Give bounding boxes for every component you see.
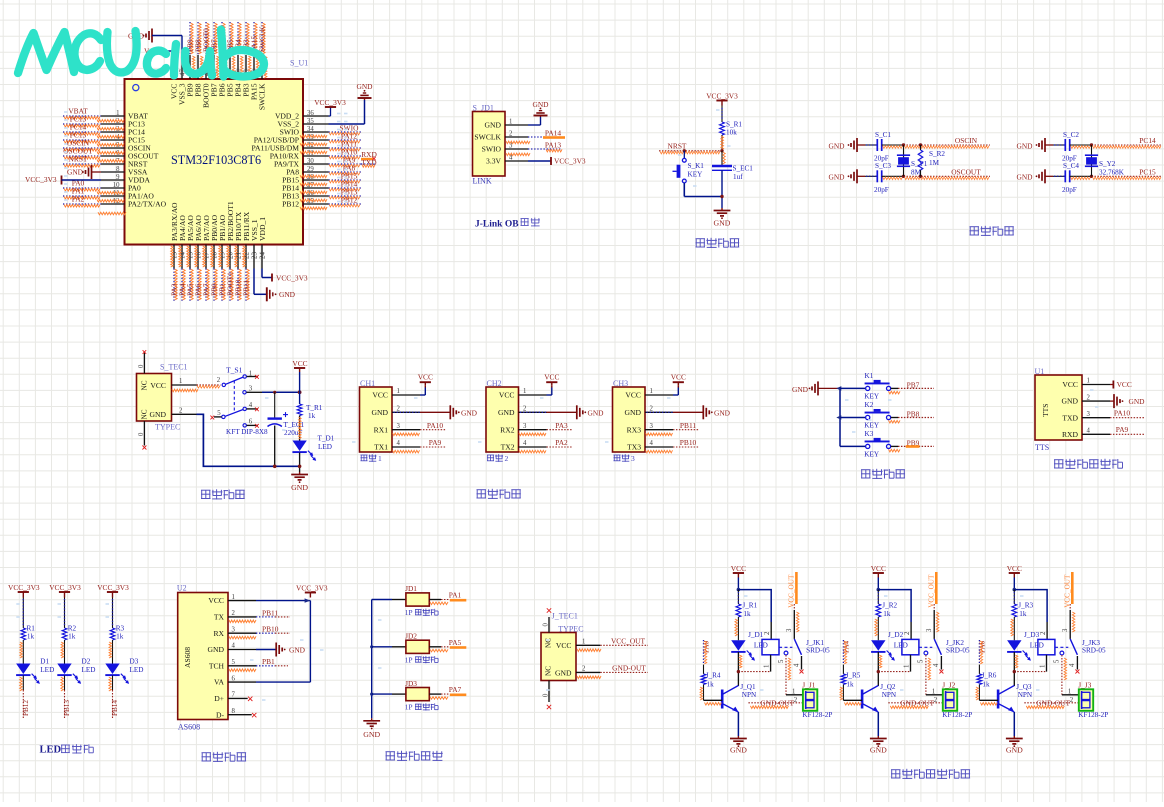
relay J_JK2 SRD-05 coil (902, 639, 919, 654)
svg-text:LED: LED (894, 642, 908, 650)
key S_K1 (683, 151, 685, 159)
wire / net label PB6 (221, 22, 223, 55)
svg-text:K3: K3 (865, 430, 874, 438)
svg-text:2: 2 (523, 406, 527, 413)
svg-text:GND: GND (532, 100, 549, 109)
pin 3 TXD (1082, 417, 1110, 419)
svg-text:18: 18 (211, 252, 219, 260)
wire / net label NRST (63, 163, 101, 165)
power VCC_3V3 (J-Link 3.3V) (528, 160, 551, 162)
pin 15 PA5/AO (189, 245, 191, 269)
svg-text:LINK: LINK (473, 177, 492, 186)
svg-text:J_D1: J_D1 (748, 631, 764, 639)
svg-text:J-Link OB: J-Link OB (475, 219, 519, 229)
pin 39 PB3 (245, 55, 247, 79)
svg-text:6: 6 (249, 418, 253, 425)
wire (22, 640, 24, 664)
capacitor S_C4 20pF (1064, 170, 1066, 182)
svg-text:20pF: 20pF (874, 186, 889, 194)
svg-text:S_K1: S_K1 (688, 162, 705, 170)
svg-text:1: 1 (397, 388, 400, 395)
pin 9 VDDA (101, 179, 125, 181)
svg-text:24: 24 (259, 252, 267, 260)
pin right / net label PA1 (429, 599, 441, 601)
pin right / net label PA5 (429, 646, 441, 648)
svg-text:1k: 1k (27, 633, 35, 641)
pin 26 PB13 (303, 195, 329, 197)
pin 3 RX3 (645, 429, 673, 431)
svg-text:VCC_OUT: VCC_OUT (928, 574, 936, 608)
svg-text:TX1: TX1 (374, 443, 388, 452)
svg-text:GND: GND (714, 219, 731, 228)
svg-text:S_R2: S_R2 (929, 150, 945, 158)
net label PA9 (1110, 433, 1145, 435)
svg-text:TX2: TX2 (501, 443, 515, 452)
pin 0 top (143, 353, 145, 374)
svg-text:VCC_3V3: VCC_3V3 (706, 91, 738, 100)
pin 3 RX (228, 632, 256, 634)
wire (865, 175, 877, 177)
relay J_JK3 SRD-05 coil (1038, 639, 1055, 654)
svg-text:1uf: 1uf (733, 173, 743, 181)
resistor S_R1 10k (720, 122, 725, 135)
wire emitter to ground (1013, 712, 1015, 736)
wire (882, 144, 904, 146)
svg-text:GND: GND (1062, 397, 1079, 406)
wire / net label PA0 (63, 187, 101, 189)
net label PB11 (673, 429, 699, 431)
pale marks (716, 109, 720, 111)
pin 1 VCC (172, 384, 197, 386)
contact lever (1070, 639, 1077, 655)
pin 48 VCC (173, 55, 175, 79)
svg-text:VCC_3V3: VCC_3V3 (276, 273, 308, 282)
pin 0 bottom (143, 421, 145, 446)
svg-text:1: 1 (509, 119, 512, 126)
wire / net label PB4 (237, 22, 239, 55)
pin 4 TX1 (392, 446, 420, 448)
key K1 (836, 386, 841, 391)
wire / net label PC15 (63, 139, 101, 141)
svg-text:GND: GND (1017, 141, 1034, 150)
wire / net label PB10 (237, 269, 239, 302)
svg-text:2: 2 (934, 697, 938, 704)
wire coil to collector node (1014, 671, 1046, 673)
power VCC (serial) (420, 394, 425, 396)
svg-text:SRD-05: SRD-05 (806, 647, 830, 655)
LED D1 (16, 664, 30, 675)
svg-text:1P: 1P (405, 703, 413, 712)
pin 2 GND (645, 411, 673, 413)
svg-text:1k: 1k (743, 610, 751, 618)
stub pins with no connect (247, 376, 258, 378)
svg-text:20pF: 20pF (1062, 186, 1077, 194)
svg-text:VCC: VCC (1062, 380, 1078, 389)
svg-text:3: 3 (397, 423, 401, 430)
wire (721, 106, 723, 123)
svg-text:RX1: RX1 (374, 425, 389, 434)
svg-text:AS608: AS608 (178, 723, 200, 732)
svg-text:PC15: PC15 (1139, 168, 1156, 177)
svg-text:SWCLK: SWCLK (474, 133, 501, 142)
net label PB1 (256, 665, 275, 667)
svg-text:4: 4 (397, 440, 401, 447)
wire key to gnd rail (683, 183, 685, 197)
coil pin1 (1046, 655, 1048, 672)
svg-text:LED: LED (1030, 642, 1044, 650)
caption 指纹模块 (202, 752, 212, 754)
wire coil to collector node (878, 671, 910, 673)
svg-text:1: 1 (582, 639, 585, 646)
svg-text:GND: GND (289, 645, 306, 654)
svg-text:R3: R3 (116, 625, 125, 633)
svg-text:1k: 1k (707, 681, 715, 689)
svg-text:NPN: NPN (742, 691, 757, 699)
pin 2 GND (172, 413, 197, 415)
svg-text:D3: D3 (130, 658, 139, 666)
wire / net label NRST (659, 150, 722, 152)
ground (reset) (721, 208, 723, 211)
svg-text:PA10: PA10 (1114, 409, 1130, 418)
wire (1070, 144, 1092, 146)
svg-text:VCC_3V3: VCC_3V3 (49, 583, 81, 592)
svg-text:NC: NC (141, 409, 149, 419)
LED D2 (57, 664, 71, 675)
dashed link (779, 646, 792, 648)
caption 按键电路 (861, 469, 871, 471)
svg-text:RXD: RXD (1062, 430, 1079, 439)
svg-text:GND: GND (498, 408, 515, 417)
caption 电磁锁反馈 (386, 751, 396, 753)
wire (877, 652, 879, 686)
pin 2 GND (519, 411, 547, 413)
pin 1 VCC (392, 394, 420, 396)
svg-text:4: 4 (232, 643, 236, 650)
svg-text:PA7: PA7 (449, 685, 462, 694)
wire (64, 598, 66, 629)
wire gnd rail (197, 414, 300, 466)
svg-text:GND: GND (1006, 746, 1023, 755)
svg-text:3: 3 (1087, 411, 1091, 418)
pin 1 VCC (645, 394, 673, 396)
extra zigzag bottom left pin (98, 212, 126, 215)
pin 24 VDD_1 (261, 245, 263, 269)
svg-text:SWIO: SWIO (482, 145, 502, 154)
svg-text:4: 4 (933, 663, 940, 667)
svg-text:GND: GND (67, 167, 84, 176)
wire / ground (serial) (394, 411, 420, 413)
svg-text:S_C3: S_C3 (875, 162, 891, 170)
svg-text:GND: GND (829, 141, 846, 150)
svg-text:VCC: VCC (1117, 380, 1132, 389)
pin 37 SWCLK (261, 55, 263, 79)
svg-text:VCC: VCC (544, 373, 559, 382)
svg-text:2: 2 (509, 131, 513, 138)
svg-text:GND: GND (208, 645, 225, 654)
svg-text:1: 1 (232, 594, 235, 601)
svg-text:3.3V: 3.3V (486, 157, 501, 166)
svg-text:VCC_3V3: VCC_3V3 (314, 98, 346, 107)
svg-text:PB12: PB12 (282, 200, 299, 209)
resistor R2 1k (62, 628, 67, 640)
wire VSS_1 (253, 269, 255, 295)
pin 21 PB10/TX (237, 245, 239, 269)
wire / net label PA10 (329, 155, 362, 157)
svg-text:GND: GND (291, 483, 308, 492)
svg-text:3: 3 (249, 386, 253, 393)
pin 32 PA11/USB/DM (303, 147, 329, 149)
node junction (1090, 143, 1093, 146)
svg-text:PA9: PA9 (1116, 425, 1129, 434)
dashed link (919, 646, 932, 648)
wire / net label PA6 (197, 269, 199, 302)
pin 0 bottom (548, 681, 550, 703)
pin 7 NRST (101, 163, 125, 165)
wire (877, 617, 879, 640)
pin 1 VCC (1082, 384, 1110, 386)
wire / net label PA2 (63, 203, 101, 205)
svg-text:2: 2 (650, 406, 654, 413)
net label PA2 (547, 446, 573, 448)
pin 6 OSCOUT (101, 155, 125, 157)
pin 41 PB5 (229, 55, 231, 79)
relay contact pin3 / net VCC_OUT (935, 572, 938, 604)
svg-text:GND: GND (1129, 397, 1146, 406)
svg-text:35: 35 (307, 118, 314, 125)
svg-text:VCC: VCC (871, 564, 886, 573)
svg-text:2: 2 (232, 610, 236, 617)
svg-text:JD3: JD3 (405, 679, 417, 688)
svg-text:8: 8 (232, 708, 236, 715)
svg-text:T_EC1: T_EC1 (284, 421, 305, 429)
LED J_D1 (731, 640, 745, 651)
pin 8 VSSA (101, 171, 125, 173)
pin 35 VSS_2 (303, 123, 329, 125)
svg-text:1k: 1k (68, 633, 76, 641)
ground (power circuit) (299, 472, 301, 475)
relay J_JK3 coil pin2 (1046, 622, 1048, 639)
caption 晶振电路 (970, 226, 980, 228)
ground (relay ch2) (877, 736, 879, 739)
pin 7 D+ (228, 697, 248, 699)
wire (1053, 175, 1065, 177)
svg-text:3: 3 (1062, 628, 1069, 632)
pin 1 VCC (228, 600, 256, 602)
net label PA14 (528, 136, 546, 138)
wire / net label PA4 (181, 269, 183, 302)
svg-text:J_R4: J_R4 (706, 672, 721, 680)
svg-text:J_R3: J_R3 (1018, 602, 1033, 610)
wire / net label PB14 (329, 187, 362, 189)
svg-text:3: 3 (650, 423, 654, 430)
pin 46 PB9 (189, 55, 191, 79)
svg-text:1: 1 (650, 388, 653, 395)
node (877, 588, 881, 592)
svg-text:VCC: VCC (372, 391, 388, 400)
svg-text:TCH: TCH (209, 661, 225, 670)
svg-text:S_R1: S_R1 (726, 120, 742, 128)
contact pin5 (784, 651, 788, 655)
node junction (902, 143, 905, 146)
svg-text:KF128-2P: KF128-2P (1078, 711, 1108, 719)
pin 3 PC14 (101, 131, 125, 133)
pin 14 PA4/AO (181, 245, 183, 269)
pin 42 PB6 (221, 55, 223, 79)
svg-text:VCC: VCC (499, 391, 515, 400)
ground (lock) (371, 718, 373, 721)
svg-text:20: 20 (227, 252, 235, 260)
net label PB10 (256, 632, 275, 634)
wire / net label PA11 (329, 147, 362, 149)
pin 2 GND (1082, 400, 1110, 402)
net label PB10 (673, 446, 699, 448)
svg-text:S_Y2: S_Y2 (1099, 160, 1116, 168)
svg-text:S_C4: S_C4 (1063, 162, 1079, 170)
svg-text:13: 13 (171, 252, 179, 260)
svg-text:PA9: PA9 (429, 438, 442, 447)
power VCC_3V3 / wire (AS608 pin1+pin6) (256, 600, 310, 602)
pin 13 PA3/RX/AO (173, 245, 175, 269)
pin 11 PA1/AO (101, 195, 125, 197)
wire / net label PB3 (245, 22, 247, 55)
svg-text:VCC: VCC (1007, 564, 1022, 573)
pin 34 SWIO (303, 131, 329, 133)
svg-text:VCC_3V3: VCC_3V3 (296, 583, 328, 592)
op-amp U1 : MCU S_U1 STM32F103C8T6 body (125, 79, 304, 245)
wire / net label PB15 (329, 179, 362, 181)
svg-text:VCC_3V3: VCC_3V3 (97, 583, 129, 592)
svg-text:PB10: PB10 (262, 625, 279, 634)
svg-text:R2: R2 (68, 625, 77, 633)
caption 语音播报模块 (1054, 459, 1064, 461)
svg-text:J_J2: J_J2 (942, 680, 955, 689)
svg-text:0: 0 (138, 432, 145, 436)
wire / net label PA3 (173, 269, 175, 302)
node NRST junction (720, 149, 723, 152)
svg-text:1k: 1k (308, 412, 316, 420)
wire (299, 372, 301, 404)
ground (VSS_1) (266, 287, 268, 301)
svg-text:TTS: TTS (1041, 403, 1050, 417)
svg-text:1: 1 (904, 665, 911, 668)
svg-text:J_D3: J_D3 (1024, 631, 1040, 639)
svg-text:LED: LED (40, 666, 54, 674)
node junction (1090, 175, 1093, 178)
svg-text:1: 1 (179, 378, 182, 385)
net label PA13 (528, 148, 561, 150)
svg-text:T_D1: T_D1 (318, 434, 335, 442)
svg-text:22: 22 (243, 252, 251, 260)
svg-text:2: 2 (505, 454, 509, 463)
wire (1013, 617, 1015, 640)
pin 45 PB8 (197, 55, 199, 79)
wire / net label PB5 (229, 22, 231, 55)
pin right / net label PA7 (429, 693, 441, 695)
wire (274, 426, 276, 467)
pin 1 VCC / net label VCC_OUT (576, 644, 600, 646)
svg-text:4: 4 (1069, 663, 1076, 667)
pin 23 VSS_1 (253, 245, 255, 269)
relay contact pin3 / net VCC_OUT (1071, 572, 1074, 604)
svg-text:KEY: KEY (864, 422, 880, 430)
wire / net label PA9 (329, 163, 362, 165)
wire / net label PB11 (245, 269, 247, 302)
relay J_JK1 coil pin2 (770, 622, 772, 639)
ground (relay ch1) (737, 736, 739, 739)
LED D3 (105, 664, 119, 675)
transistor J_Q1 NPN (721, 690, 724, 709)
svg-text:AS608: AS608 (183, 647, 192, 668)
svg-text:3: 3 (232, 626, 236, 633)
pin 6 VA (228, 681, 256, 683)
wire / net label GND-OUT (748, 702, 803, 704)
svg-text:0: 0 (543, 623, 550, 627)
caption 串口n (614, 454, 621, 456)
svg-text:PB11: PB11 (680, 421, 696, 430)
svg-text:RX2: RX2 (500, 425, 515, 434)
ground (VSS_2) (364, 98, 366, 100)
no connect D+ (248, 697, 252, 701)
ground (J-Link pin1) (540, 116, 542, 118)
svg-text:GND: GND (279, 290, 296, 299)
svg-text:J_R2: J_R2 (882, 602, 897, 610)
pin 5 OSCIN (101, 147, 125, 149)
svg-text:S_EC1: S_EC1 (733, 165, 754, 173)
svg-text:RX3: RX3 (627, 425, 642, 434)
wire (721, 170, 723, 208)
svg-text:PB14: PB14 (111, 700, 119, 716)
resistor J_R2 1k (877, 590, 879, 604)
wire / net label PA1 (63, 195, 101, 197)
svg-text:VCC: VCC (150, 381, 166, 390)
svg-text:GND: GND (792, 385, 809, 394)
caption 串口n (487, 454, 494, 456)
transistor J_Q2 NPN (861, 690, 864, 709)
svg-text:OSCIN: OSCIN (955, 136, 978, 145)
pin 2 TX (228, 616, 256, 618)
svg-text:VCC: VCC (671, 373, 686, 382)
svg-text:1: 1 (1087, 378, 1090, 385)
svg-text:J_R6: J_R6 (982, 672, 997, 680)
svg-text:S_C1: S_C1 (875, 131, 891, 139)
svg-text:D1: D1 (40, 658, 49, 666)
resistor J_R1 1k (737, 590, 739, 604)
wire / net label PC15 (1092, 175, 1163, 177)
node (737, 588, 741, 592)
pin 36 VDD_2 (303, 115, 329, 117)
caption 继电器控制电路 (891, 769, 901, 771)
capacitor S_C1 20pF (876, 139, 878, 151)
svg-text:4: 4 (1087, 428, 1091, 435)
svg-text:K1: K1 (865, 372, 874, 380)
wire (1070, 175, 1092, 177)
contact pin4 no connect (1076, 656, 1078, 670)
relay contact pin3 / net VCC_OUT (795, 572, 798, 604)
svg-text:19: 19 (219, 252, 227, 260)
wire / net label SWIO (329, 131, 362, 133)
svg-text:J_TEC1: J_TEC1 (552, 611, 578, 620)
wire / net label PB9 (891, 445, 898, 447)
svg-text:PA2/TX/AO: PA2/TX/AO (128, 200, 167, 209)
pin 33 PA12/USB/DP (303, 139, 329, 141)
svg-text:D-: D- (216, 710, 224, 719)
pin 5 TCH (228, 665, 256, 667)
wire emitter to ground (737, 712, 739, 736)
capacitor T_EC1 220uF (274, 392, 276, 417)
wire / net label SWCLK (261, 22, 263, 55)
ground (relay ch3) (1013, 736, 1015, 739)
svg-text:6: 6 (232, 675, 236, 682)
